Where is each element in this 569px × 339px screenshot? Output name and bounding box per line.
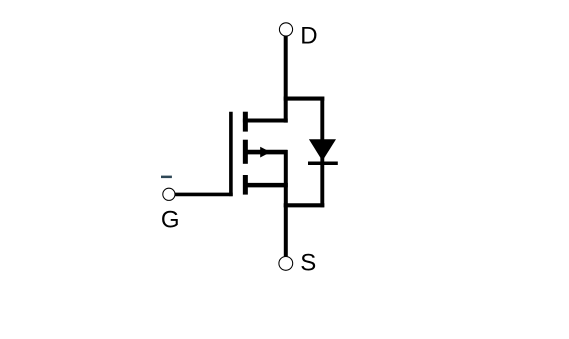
svg-text:G: G bbox=[161, 206, 180, 233]
svg-text:S: S bbox=[300, 250, 316, 277]
svg-text:D: D bbox=[300, 23, 317, 50]
